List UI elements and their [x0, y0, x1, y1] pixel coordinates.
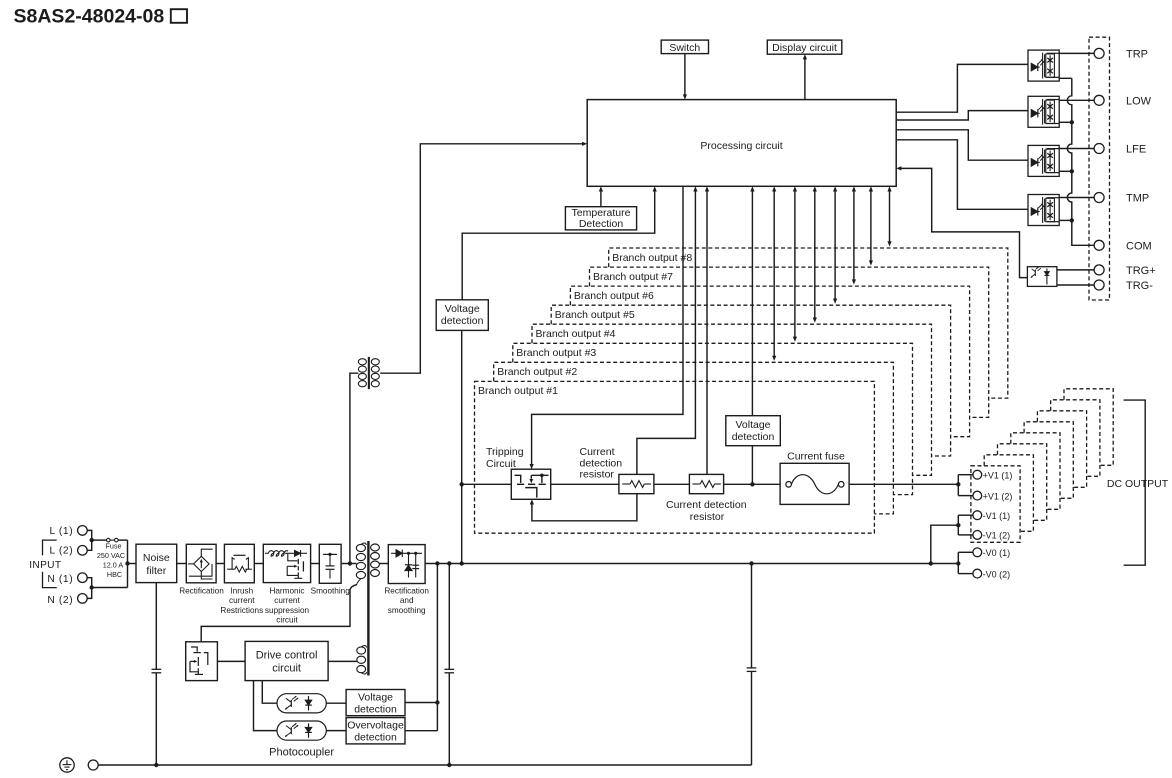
svg-text:Fuse: Fuse — [106, 542, 122, 551]
svg-text:Drive control: Drive control — [256, 650, 318, 662]
svg-text:TMP: TMP — [1126, 193, 1149, 205]
svg-text:S8AS2-48024-08: S8AS2-48024-08 — [14, 6, 165, 28]
svg-text:circuit: circuit — [272, 663, 301, 675]
terminal +V1 (1) — [973, 470, 982, 479]
branch output #5 dashed box — [551, 305, 950, 456]
wire PC2 to overvoltage detection — [326, 730, 346, 732]
wire processing circuit to branch output #7 — [870, 190, 872, 261]
wire processing circuit to branch output #4 — [814, 190, 816, 318]
node -V0 split — [957, 552, 959, 573]
wire TMP relay lower output to COM bus — [1059, 219, 1072, 221]
svg-text:current: current — [229, 596, 255, 605]
svg-text:TRP: TRP — [1126, 48, 1148, 60]
terminal -V1 (1) — [973, 511, 982, 520]
DC output group dashed box #8 — [1064, 389, 1113, 466]
svg-text:+V1 (2): +V1 (2) — [983, 491, 1013, 501]
wire MOSFET to drive control circuit — [217, 660, 245, 662]
switch block — [661, 40, 708, 54]
svg-text:Branch output #3: Branch output #3 — [516, 347, 596, 359]
svg-text:250 VAC: 250 VAC — [97, 551, 125, 560]
svg-text:L (1): L (1) — [50, 526, 74, 537]
svg-text:current: current — [274, 596, 300, 605]
svg-text:Detection: Detection — [579, 218, 624, 230]
bottom ground bus wire — [98, 764, 751, 766]
wire branch #1 main rail (right) + node — [724, 483, 781, 485]
svg-text:12.0 A: 12.0 A — [103, 561, 124, 570]
T1 feedback winding — [357, 647, 366, 654]
wire TRG optocoupler to TRG+ terminal — [1057, 269, 1095, 271]
svg-text:detection: detection — [441, 315, 484, 327]
svg-text:detection: detection — [354, 732, 397, 744]
svg-text:detection: detection — [580, 457, 623, 469]
branch output #7 dashed box — [590, 267, 989, 417]
svg-text:L (2): L (2) — [50, 546, 74, 557]
wire branch voltage detection to processing circuit — [751, 190, 753, 415]
capacitor C1 (input side) — [155, 583, 157, 670]
wire DC bus to output terminals — [425, 563, 958, 565]
svg-text:Photocoupler: Photocoupler — [269, 747, 334, 759]
DC output group dashed box #7 — [1051, 400, 1100, 477]
svg-text:resistor: resistor — [580, 469, 615, 481]
node -V1 split — [957, 515, 959, 535]
svg-text:Branch output #5: Branch output #5 — [555, 309, 635, 321]
wire feedback resistor R1 to tripping circuit — [532, 494, 637, 521]
svg-text:N (2): N (2) — [47, 595, 73, 606]
temperature detection block — [565, 207, 636, 230]
wire TRP relay to terminal — [1059, 52, 1094, 54]
input group bracket top — [43, 540, 57, 555]
photoMOS relay TMP — [1028, 195, 1059, 226]
svg-text:Harmonic: Harmonic — [269, 587, 304, 596]
branch output #2 dashed box — [494, 362, 894, 514]
wire voltage detection down to DC bus — [461, 330, 463, 563]
svg-text:Rectification: Rectification — [179, 587, 224, 596]
terminal +V1 (2) — [973, 491, 982, 500]
photoMOS relay LFE — [1028, 145, 1059, 176]
wire N junction to fuse block — [92, 587, 128, 589]
svg-text:Circuit: Circuit — [486, 458, 516, 470]
switching MOSFET block Q2 — [186, 642, 218, 681]
T1 primary winding — [356, 544, 365, 551]
terminal TMP — [1094, 193, 1104, 203]
wire fuse block to noise filter — [128, 563, 137, 565]
terminal N (2) — [78, 594, 88, 604]
svg-text:Inrush: Inrush — [230, 587, 253, 596]
tripping circuit MOSFET Q1 — [511, 469, 550, 499]
wire tripping-circuit gate drive from processing circuit — [532, 186, 683, 465]
svg-text:Current fuse: Current fuse — [787, 450, 845, 462]
svg-text:Temperature: Temperature — [572, 207, 631, 219]
svg-text:LOW: LOW — [1126, 95, 1152, 107]
terminal COM — [1094, 240, 1104, 250]
svg-text:+V1 (1): +V1 (1) — [983, 470, 1013, 480]
svg-text:Restrictions: Restrictions — [220, 606, 263, 615]
svg-text:-V1 (1): -V1 (1) — [983, 511, 1011, 521]
svg-text:Voltage: Voltage — [358, 691, 393, 703]
wire LFE relay lower output to COM bus — [1059, 170, 1072, 172]
terminal TRG+ — [1094, 265, 1104, 275]
node +V1 split — [957, 475, 959, 496]
signal terminal strip dashed box — [1089, 37, 1110, 300]
wire N terminals junction — [87, 578, 92, 599]
wire processing circuit to branch output #3 — [794, 190, 796, 337]
branch output #8 dashed box — [609, 248, 1008, 398]
terminal -V0 (2) — [973, 569, 982, 578]
wire aux transformer secondary to processing circuit — [380, 144, 582, 373]
T2 primary winding — [358, 359, 366, 365]
wire L terminals junction — [87, 530, 92, 550]
terminal LOW — [1094, 95, 1104, 105]
current fuse F1 — [780, 463, 849, 504]
svg-text:Current: Current — [580, 446, 615, 458]
wire branch #1 main rail (middle) — [654, 483, 690, 485]
svg-text:suppression: suppression — [265, 606, 310, 615]
wire voltage detection feedback to DC bus — [405, 702, 437, 704]
smoothing block — [319, 544, 341, 583]
wire current fuse to +V1 terminals — [849, 483, 958, 485]
main transformer T1 core — [367, 541, 369, 676]
current detection resistor R1 — [619, 474, 654, 493]
svg-text:resistor: resistor — [690, 511, 725, 523]
wire drive control to photocoupler 2 — [254, 681, 278, 731]
svg-text:Branch output #8: Branch output #8 — [612, 252, 692, 264]
wire branch #1 main rail (left) — [462, 483, 512, 485]
COM bus wire with hops — [1059, 77, 1072, 79]
svg-text:circuit: circuit — [276, 615, 298, 624]
protective earth ground symbol — [60, 758, 74, 772]
svg-text:-V0 (1): -V0 (1) — [983, 548, 1011, 558]
noise filter block — [136, 544, 177, 582]
svg-text:Branch output #7: Branch output #7 — [593, 271, 673, 283]
branch output #4 dashed box — [532, 324, 932, 475]
voltage detection block (secondary side) — [436, 300, 488, 331]
wire processing circuit to branch output #2 — [773, 190, 775, 356]
DC output group dashed box #3 — [998, 444, 1047, 521]
svg-text:DC OUTPUT: DC OUTPUT — [1107, 478, 1169, 490]
wire -V1 to DC bus — [931, 525, 959, 563]
svg-text:Smoothing: Smoothing — [311, 587, 351, 596]
wire current detection resistor 2 to processing circuit — [706, 190, 708, 474]
svg-text:Noise: Noise — [143, 552, 170, 564]
svg-text:HBC: HBC — [107, 570, 122, 579]
aux transformer T2 core — [368, 357, 370, 389]
fuse F (input) — [92, 539, 107, 541]
svg-text:smoothing: smoothing — [388, 606, 426, 615]
svg-text:Processing circuit: Processing circuit — [700, 140, 782, 152]
photocoupler PC2 — [277, 721, 326, 740]
rectification block — [186, 544, 216, 583]
DC output group dashed box #5 — [1024, 422, 1073, 499]
DC output group dashed box #1 — [971, 466, 1020, 543]
wire T1 primary return to switching MOSFET — [201, 585, 357, 642]
svg-text:detection: detection — [732, 431, 775, 443]
rectification and smoothing block — [388, 545, 425, 584]
wire TRG optocoupler to TRG- terminal — [1057, 284, 1095, 286]
overvoltage detection block — [346, 718, 405, 744]
branch voltage detection block — [726, 416, 781, 446]
T1 secondary winding — [371, 544, 380, 551]
svg-text:TRG+: TRG+ — [1126, 265, 1156, 277]
terminal L (1) — [78, 526, 88, 536]
svg-text:Branch output #1: Branch output #1 — [478, 385, 558, 397]
photoMOS relay TRP — [1028, 50, 1059, 81]
DC OUTPUT bracket — [1124, 400, 1146, 565]
photoMOS relay LOW — [1028, 96, 1059, 127]
wire T1 secondary to rectification and smoothing — [379, 563, 388, 565]
wire current detection resistor 1 to processing circuit — [637, 190, 696, 474]
display circuit block — [767, 40, 842, 54]
svg-text:detection: detection — [354, 703, 397, 715]
wire branch voltage detection to rail — [751, 446, 753, 485]
svg-text:Branch output #6: Branch output #6 — [574, 290, 654, 302]
wire switch to processing circuit — [684, 54, 686, 96]
wire PC1 to voltage detection — [326, 702, 346, 704]
wire LOW relay to terminal — [1059, 99, 1094, 101]
svg-text:Branch output #4: Branch output #4 — [536, 328, 616, 340]
svg-text:Display circuit: Display circuit — [772, 42, 837, 54]
wire smoothing to main transformer — [341, 563, 357, 565]
DC output group dashed box #4 — [1011, 433, 1060, 510]
inrush current restriction block — [224, 544, 254, 583]
terminal -V0 (1) — [973, 548, 982, 557]
svg-text:LFE: LFE — [1126, 144, 1146, 156]
capacitor C2 (output side) — [448, 564, 450, 670]
photocoupler PC1 — [277, 694, 326, 713]
branch output #3 dashed box — [513, 343, 913, 494]
svg-text:COM: COM — [1126, 240, 1152, 252]
svg-text:Voltage: Voltage — [735, 419, 770, 431]
wire processing circuit to LOW relay — [896, 111, 1028, 120]
svg-text:Voltage: Voltage — [445, 303, 480, 315]
wire voltage detection (secondary) to processing circuit — [462, 190, 655, 299]
wire overvoltage detection to feedback line — [405, 730, 437, 732]
terminal TRG- — [1094, 280, 1104, 290]
wire TRG optocoupler to processing circuit — [901, 168, 1028, 277]
wire processing circuit to display circuit — [804, 58, 806, 99]
harmonic current suppression block — [263, 544, 310, 582]
wire noise filter to rectification — [177, 563, 187, 565]
branch output #1 dashed box — [475, 381, 875, 533]
wire temperature detection to processing circuit — [600, 190, 602, 206]
wire DC bus to T2 primary — [350, 373, 359, 563]
wire processing circuit to LFE relay — [896, 130, 1028, 160]
svg-text:Rectification: Rectification — [384, 587, 429, 596]
wire processing circuit to TRP relay — [896, 64, 1028, 112]
svg-text:Tripping: Tripping — [486, 446, 524, 458]
terminal TRP — [1094, 48, 1104, 58]
capacitor C3 (output side) — [751, 564, 753, 668]
terminal L (2) — [78, 546, 88, 556]
DC output group dashed box #6 — [1037, 411, 1086, 488]
terminal N (1) — [78, 573, 88, 583]
wire drive control to T1 feedback winding — [328, 660, 357, 662]
DC output group dashed box #2 — [984, 455, 1033, 532]
ground terminal — [88, 760, 98, 770]
processing circuit U1 — [587, 100, 896, 187]
wire processing circuit to branch output #6 — [853, 190, 855, 280]
svg-text:Branch output #2: Branch output #2 — [497, 366, 577, 378]
wire processing circuit to TMP relay — [896, 140, 1028, 210]
svg-text:Current detection: Current detection — [666, 499, 747, 511]
branch output #6 dashed box — [570, 286, 969, 437]
svg-text:and: and — [400, 596, 414, 605]
wire processing circuit to branch output #8 — [889, 190, 891, 242]
T2 secondary winding — [371, 359, 379, 365]
svg-text:-V1 (2): -V1 (2) — [983, 531, 1011, 541]
current detection resistor R2 — [689, 474, 723, 493]
input group bracket bottom — [43, 572, 57, 588]
svg-text:TRG-: TRG- — [1126, 280, 1153, 292]
wire drive control to photocoupler 1 — [262, 681, 277, 704]
svg-text:Overvoltage: Overvoltage — [347, 720, 404, 732]
terminal -V1 (2) — [973, 531, 982, 540]
svg-text:INPUT: INPUT — [29, 560, 61, 571]
voltage detection block (feedback) — [346, 690, 405, 716]
svg-text:filter: filter — [146, 565, 166, 577]
wire TMP relay to terminal — [1059, 197, 1094, 199]
wire processing circuit to branch output #5 — [834, 190, 836, 299]
fuse block outline right edge — [127, 540, 129, 587]
drive control circuit block — [245, 641, 328, 680]
terminal LFE — [1094, 144, 1104, 154]
TRG optocoupler — [1027, 267, 1057, 287]
svg-text:N (1): N (1) — [47, 574, 73, 585]
wire LOW relay lower output to COM bus — [1059, 121, 1072, 123]
svg-text:-V0 (2): -V0 (2) — [983, 569, 1011, 579]
wire LFE relay to terminal — [1059, 148, 1094, 150]
svg-text:Switch: Switch — [669, 42, 700, 54]
